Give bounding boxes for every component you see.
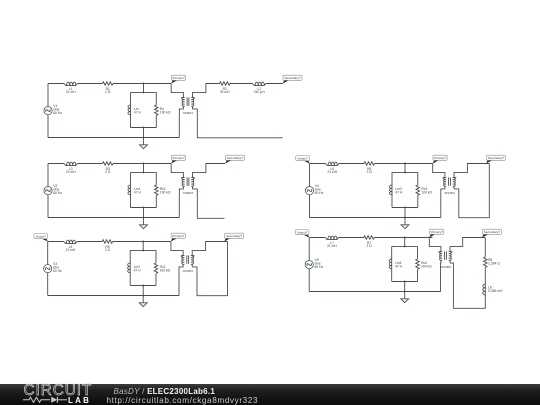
wire parallel block rails — [392, 246, 418, 281]
wire bottom — [48, 295, 179, 297]
svg-text:XFMR5: XFMR5 — [440, 265, 451, 269]
svg-text:2 Ω: 2 Ω — [367, 170, 373, 174]
wire primary bottom pin — [179, 186, 183, 217]
wire secondary bottom — [193, 106, 283, 138]
voltage source V3 — [44, 262, 62, 273]
flag Primary? — [433, 155, 447, 163]
resistor R6 — [364, 162, 375, 174]
svg-text:Secondary?: Secondary? — [484, 230, 500, 234]
svg-text:2,284 Ω: 2,284 Ω — [488, 262, 500, 266]
wire primary bottom pin — [441, 186, 445, 217]
svg-text:47 H: 47 H — [134, 268, 142, 272]
inductor L1 — [64, 82, 78, 94]
wire primary link — [171, 242, 183, 256]
wire secondary top pin — [192, 242, 227, 256]
svg-text:Primary?: Primary? — [172, 234, 184, 238]
wire stem to parallel block — [143, 84, 145, 93]
svg-text:60 Hz: 60 Hz — [315, 191, 324, 195]
wire stem to parallel block — [142, 242, 144, 251]
wire parallel block rails — [130, 250, 156, 285]
inductor L3 — [64, 162, 78, 174]
resistor Rc2 (core loss) — [154, 263, 170, 274]
voltage source V1 — [44, 104, 62, 115]
transformer XFMR2 — [181, 177, 194, 195]
svg-text:Primary?: Primary? — [173, 76, 185, 80]
ground — [140, 218, 148, 229]
wire — [484, 267, 486, 283]
svg-text:100 kΩ: 100 kΩ — [421, 190, 432, 194]
wire bottom — [309, 291, 440, 293]
svg-text:47 H: 47 H — [395, 190, 403, 194]
svg-text:30 mΩ: 30 mΩ — [220, 90, 230, 94]
flag Primary? — [171, 75, 186, 83]
svg-text:21 mH: 21 mH — [66, 170, 76, 174]
ground — [139, 296, 147, 307]
svg-text:XFMR2: XFMR2 — [183, 191, 194, 195]
svg-text:210 µH: 210 µH — [254, 90, 265, 94]
wire stem to parallel block — [404, 238, 406, 247]
svg-text:47 H: 47 H — [134, 190, 142, 194]
wire secondary top pin — [193, 164, 226, 178]
wire left vertical — [47, 84, 49, 138]
svg-text:Vinput?: Vinput? — [36, 234, 46, 238]
node junction top — [143, 83, 145, 85]
wire secondary loop — [454, 164, 489, 218]
wire stem to parallel block — [404, 164, 406, 173]
voltage source V2 — [44, 184, 62, 195]
flag Vinput? — [296, 156, 310, 164]
resistor R3 — [103, 162, 114, 174]
ground — [401, 292, 409, 303]
transformer XFMR5 — [439, 251, 452, 269]
wire — [266, 83, 283, 85]
wire top — [310, 163, 433, 165]
flag Primary? — [171, 233, 186, 241]
footer title line — [114, 387, 216, 396]
wire top — [48, 83, 171, 85]
footer url line — [107, 396, 259, 405]
svg-text:Vinput?: Vinput? — [297, 156, 307, 160]
node junction top — [404, 163, 406, 165]
wire left vertical — [308, 238, 310, 292]
svg-text:Primary?: Primary? — [173, 156, 185, 160]
wire left vertical — [309, 164, 311, 218]
svg-text:Primary?: Primary? — [434, 156, 446, 160]
wire primary bottom pin — [179, 106, 183, 137]
wire left vertical — [47, 242, 49, 296]
svg-text:5,355 mH: 5,355 mH — [488, 289, 503, 293]
wire secondary top pin — [193, 84, 220, 98]
svg-text:60 Hz: 60 Hz — [53, 191, 62, 195]
wire top — [48, 241, 171, 243]
svg-text:60 Hz: 60 Hz — [315, 265, 324, 269]
flag Secondary? — [225, 155, 244, 163]
resistor R1 — [103, 82, 114, 94]
svg-text:100 kΩ: 100 kΩ — [160, 110, 171, 114]
inductor Lm3 (magnetizing) — [390, 185, 403, 195]
resistor Rc4 (core loss) — [416, 259, 432, 270]
svg-text:21 mH: 21 mH — [66, 90, 76, 94]
inductor L7 — [325, 236, 339, 248]
flag Vinput? — [295, 230, 309, 238]
svg-text:Secondary?: Secondary? — [284, 76, 300, 80]
svg-text:2 Ω: 2 Ω — [366, 244, 372, 248]
svg-text:100 kΩ: 100 kΩ — [421, 264, 432, 268]
wire secondary loop — [192, 242, 227, 296]
svg-text:Vinput?: Vinput? — [297, 230, 307, 234]
CircuitLab logo text CIRCUIT — [24, 382, 93, 400]
wire — [230, 83, 253, 85]
svg-text:47 H: 47 H — [134, 110, 142, 114]
resistor R2 — [220, 82, 231, 94]
voltage source V5 — [305, 258, 323, 269]
voltage source V4 — [305, 184, 323, 195]
transformer XFMR1 — [181, 97, 194, 115]
logo text LAB — [68, 396, 91, 405]
svg-text:21 mH: 21 mH — [327, 170, 337, 174]
svg-text:21 mH: 21 mH — [327, 244, 337, 248]
ground — [401, 218, 409, 229]
logo schematic line (resistor + diode) — [23, 396, 69, 404]
wire secondary branch top — [484, 238, 486, 257]
svg-text:XFMR4: XFMR4 — [444, 191, 455, 195]
inductor Lm (magnetizing) — [128, 105, 141, 115]
wire primary link — [429, 238, 441, 252]
inductor L5 — [64, 240, 77, 252]
flag Vinput? — [34, 234, 48, 242]
wire parallel block rails — [131, 92, 157, 127]
node junction top — [142, 241, 144, 243]
inductor Lm4 (magnetizing) — [389, 259, 402, 269]
flag Primary? — [171, 155, 186, 163]
inductor Lm2 (magnetizing) — [128, 263, 141, 273]
node junction top — [143, 163, 145, 165]
transformer XFMR3 — [181, 255, 194, 273]
inductor L2 — [253, 82, 267, 94]
wire primary link — [171, 84, 183, 98]
wire primary bottom pin — [440, 260, 442, 291]
wire secondary bottom — [193, 186, 225, 218]
ground — [140, 138, 148, 149]
svg-text:60 Hz: 60 Hz — [53, 269, 62, 273]
node junction top — [404, 237, 406, 239]
svg-text:XFMR1: XFMR1 — [183, 111, 194, 115]
svg-text:100 kΩ: 100 kΩ — [160, 268, 171, 272]
resistor R5 — [102, 240, 113, 252]
svg-text:XFMR3: XFMR3 — [182, 269, 193, 273]
inductor L6 — [326, 162, 340, 174]
flag Secondary? — [486, 155, 505, 163]
svg-text:100 kΩ: 100 kΩ — [160, 190, 171, 194]
wire primary link — [171, 164, 183, 178]
wire bottom — [310, 217, 441, 219]
svg-text:60 Hz: 60 Hz — [53, 111, 62, 115]
wire bottom — [48, 137, 179, 139]
svg-text:Secondary?: Secondary? — [226, 234, 242, 238]
svg-text:Primary?: Primary? — [431, 230, 443, 234]
wire left vertical — [47, 164, 49, 218]
svg-text:Secondary?: Secondary? — [227, 156, 243, 160]
svg-text:2 Ω: 2 Ω — [105, 170, 111, 174]
flag Primary? — [429, 229, 444, 237]
flag Secondary? — [224, 233, 243, 241]
wire stem bottom — [142, 285, 144, 287]
wire secondary top pin — [450, 238, 485, 252]
wire top — [309, 237, 432, 239]
wire stem bottom — [404, 207, 406, 209]
resistor R7 — [364, 236, 375, 248]
wire parallel block rails — [392, 172, 418, 207]
wire stem to parallel block — [143, 164, 145, 173]
resistor Rc1 (core loss) — [155, 185, 171, 196]
wire stem bottom — [404, 281, 406, 283]
wire secondary top pin — [454, 164, 489, 178]
svg-text:2 Ω: 2 Ω — [105, 90, 111, 94]
wire stem bottom — [143, 127, 145, 129]
wire primary bottom pin — [179, 264, 183, 295]
wire bottom — [48, 217, 179, 219]
svg-text:21 mH: 21 mH — [66, 248, 76, 252]
svg-text:47 H: 47 H — [395, 264, 403, 268]
resistor Rc (core loss) — [155, 105, 171, 116]
resistor R8 — [484, 257, 501, 268]
flag Secondary? — [482, 229, 501, 237]
transformer XFMR4 — [443, 177, 456, 195]
wire top — [48, 163, 171, 165]
wire primary link — [433, 164, 445, 178]
inductor L8 — [483, 284, 503, 296]
resistor Rc3 (core loss) — [416, 185, 432, 196]
footer bar — [0, 384, 540, 405]
inductor Lm1 (magnetizing) — [128, 185, 141, 195]
wire secondary loop bottom — [450, 260, 485, 308]
wire stem bottom — [143, 207, 145, 209]
svg-text:Secondary?: Secondary? — [488, 156, 504, 160]
svg-text:2 Ω: 2 Ω — [105, 248, 111, 252]
flag Secondary? — [283, 75, 302, 83]
wire parallel block rails — [131, 172, 157, 207]
